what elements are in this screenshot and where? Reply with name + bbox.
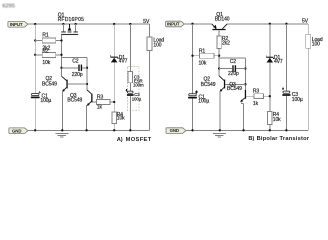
svg-text:100m: 100m (133, 82, 144, 87)
svg-text:100: 100 (312, 41, 320, 47)
svg-text:R2: R2 (42, 49, 49, 55)
svg-text:4V7: 4V7 (274, 59, 283, 65)
svg-text:BC549: BC549 (42, 81, 57, 87)
svg-text:100µ: 100µ (292, 97, 303, 103)
svg-text:5V: 5V (143, 19, 150, 25)
svg-text:R1: R1 (42, 33, 49, 39)
svg-text:10k: 10k (117, 115, 125, 121)
svg-text:1k: 1k (253, 101, 259, 107)
svg-text:220p: 220p (72, 72, 83, 78)
svg-text:100µ: 100µ (198, 98, 209, 104)
svg-text:5V: 5V (302, 18, 309, 24)
svg-text:A): A) (117, 137, 123, 143)
svg-text:220p: 220p (228, 71, 239, 77)
svg-text:10k: 10k (199, 61, 207, 67)
svg-text:10k: 10k (42, 60, 50, 66)
svg-text:BC549: BC549 (67, 97, 82, 103)
svg-text:BD140: BD140 (215, 16, 230, 22)
svg-text:BC549: BC549 (227, 86, 242, 92)
svg-text:GND: GND (12, 128, 21, 133)
svg-text:10k: 10k (273, 117, 281, 123)
svg-text:GND: GND (170, 128, 179, 133)
svg-text:100µ: 100µ (40, 98, 51, 104)
svg-text:C2: C2 (72, 59, 79, 65)
svg-text:C2: C2 (230, 59, 237, 65)
svg-text:1k: 1k (97, 104, 103, 110)
svg-text:100: 100 (153, 42, 161, 48)
svg-text:INPUT: INPUT (10, 22, 23, 27)
svg-text:6295: 6295 (2, 4, 16, 10)
svg-text:MOSFET: MOSFET (126, 137, 152, 143)
svg-text:B): B) (248, 136, 254, 142)
svg-text:Bipolar Transistor: Bipolar Transistor (257, 136, 310, 142)
svg-text:2k2: 2k2 (222, 41, 230, 47)
svg-text:INPUT: INPUT (167, 22, 180, 27)
svg-text:100µ: 100µ (132, 97, 142, 102)
svg-text:4V7: 4V7 (119, 59, 128, 65)
svg-text:RFD16P05: RFD16P05 (58, 17, 85, 23)
svg-text:BC549: BC549 (201, 82, 216, 88)
